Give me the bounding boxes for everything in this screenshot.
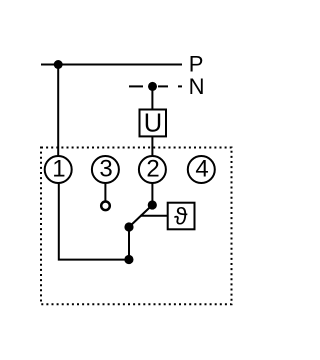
svg-text:1: 1 [52,156,65,183]
svg-text:2: 2 [146,156,159,183]
svg-text:ϑ: ϑ [174,203,188,230]
svg-text:3: 3 [99,156,112,183]
svg-text:4: 4 [195,156,208,183]
svg-text:U: U [144,110,162,138]
svg-text:N: N [189,74,205,99]
